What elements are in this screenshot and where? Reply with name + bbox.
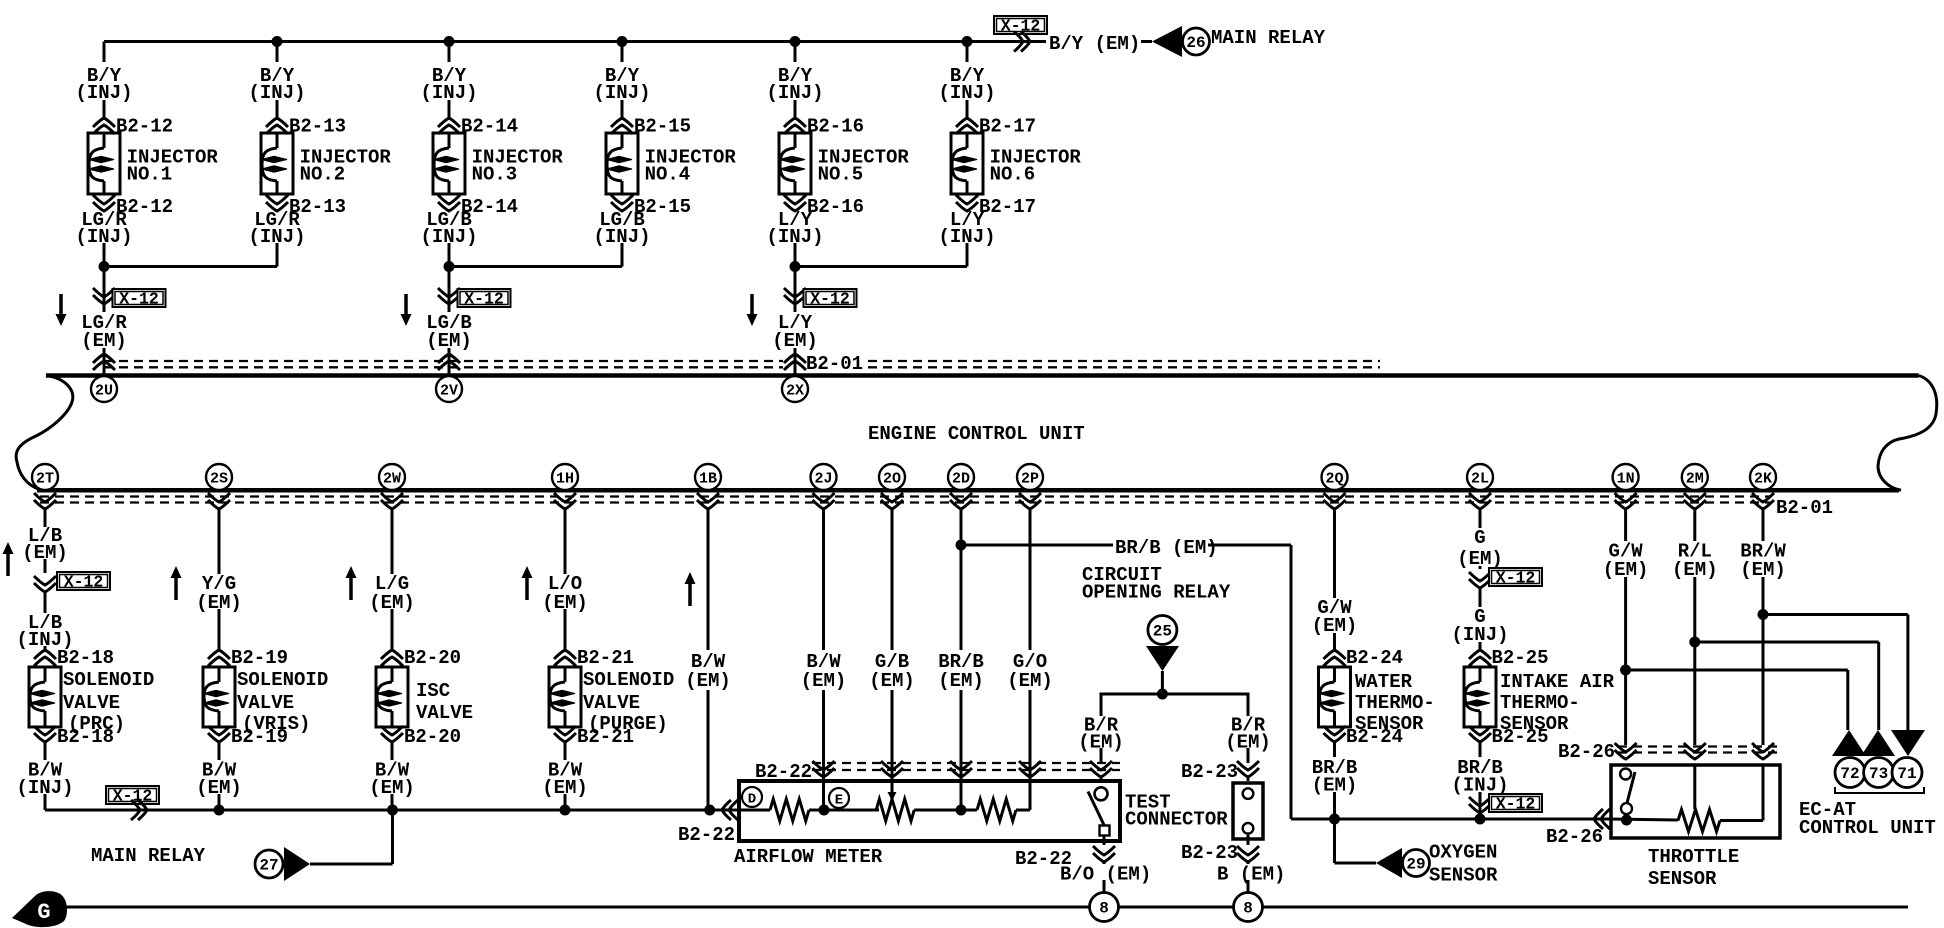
- svg-text:BR/B (EM): BR/B (EM): [1115, 537, 1218, 559]
- svg-text:B2-12: B2-12: [116, 116, 173, 138]
- connector B2-01 chevron below pin 2J: [813, 500, 835, 509]
- ECU torn edge right: [1878, 376, 1937, 491]
- svg-text:VALVE: VALVE: [416, 702, 473, 724]
- svg-text:B2-16: B2-16: [807, 116, 864, 138]
- junction BR/B at water sensor: [1329, 814, 1340, 825]
- svg-text:OPENING RELAY: OPENING RELAY: [1082, 582, 1231, 604]
- svg-text:THERMO-: THERMO-: [1355, 692, 1435, 714]
- connector B2-22 chevron below airflow meter: [1093, 853, 1115, 862]
- connector B2-23 chevron below test connector: [1237, 853, 1259, 862]
- injector NO.2 (coil in box): [261, 133, 293, 194]
- ECU torn edge left: [16, 376, 73, 490]
- injector NO.4 (coil in box): [606, 133, 638, 194]
- connector B2-18 (bottom of solenoid valve PRC): [34, 733, 56, 742]
- connector B2-26 chevron at x=1625.6: [1615, 750, 1637, 759]
- wire 2J inside airflow meter: [822, 781, 825, 810]
- svg-text:(EM): (EM): [772, 330, 818, 352]
- connector B2-25 (top of intake air thermo-sensor): [1469, 650, 1491, 659]
- ECU pin 2L: [1467, 464, 1493, 490]
- svg-text:B2-15: B2-15: [634, 116, 691, 138]
- resistor (airflow meter 2): [876, 799, 914, 821]
- connector B2-15 (top of injector 4): [611, 118, 633, 127]
- connector B2-22 chevron at x=823.5: [813, 768, 835, 777]
- svg-text:B2-20: B2-20: [404, 726, 461, 748]
- connector B2-18 (top of solenoid valve PRC): [34, 650, 56, 659]
- svg-text:B2-24: B2-24: [1346, 647, 1403, 669]
- connector B2-01 chevron below pin 1H: [554, 500, 576, 509]
- svg-text:B/O (EM): B/O (EM): [1060, 864, 1151, 886]
- connector B2-22 chevron at x=892: [881, 768, 903, 777]
- wire L/O (EM) from ECU pin x=565: [564, 509, 567, 574]
- svg-text:G: G: [37, 900, 50, 925]
- svg-text:2X: 2X: [786, 383, 804, 400]
- wire inside throttle sensor: [1625, 814, 1628, 821]
- wiper wire 2M into throttle sensor: [1693, 765, 1696, 809]
- test connector pins: [1243, 788, 1254, 799]
- arrow (direction) near 2U: [59, 294, 63, 315]
- ground symbol G: [12, 891, 67, 927]
- injector NO.6 (coil in box): [951, 133, 983, 194]
- svg-text:ISC: ISC: [416, 680, 450, 702]
- wire L/B (EM) from pin 2T: [44, 509, 47, 527]
- connector B2-01 chevron below pin 2P: [1019, 500, 1041, 509]
- svg-text:B (EM): B (EM): [1217, 864, 1285, 886]
- ECU pin 2M: [1682, 464, 1708, 490]
- svg-text:B2-01: B2-01: [806, 353, 863, 375]
- wire below injector 5: [794, 243, 797, 267]
- connector B2-24 (bottom of water thermo-sensor): [1324, 733, 1346, 742]
- ground bus: [56, 906, 1908, 909]
- svg-text:(INJ): (INJ): [75, 82, 132, 104]
- svg-text:B2-18: B2-18: [57, 726, 114, 748]
- ECU pin 2T: [32, 464, 58, 490]
- svg-text:2Q: 2Q: [1325, 471, 1343, 488]
- svg-text:D: D: [748, 792, 756, 808]
- injector NO.5 (coil in box): [779, 133, 811, 194]
- wire BR/B (EM) horizontal run: [1291, 818, 1609, 821]
- svg-text:THROTTLE: THROTTLE: [1648, 846, 1739, 868]
- wire below injector 3: [448, 243, 451, 267]
- connector B2-13 (top of injector 2): [266, 118, 288, 127]
- svg-text:B2-17: B2-17: [979, 116, 1036, 138]
- node 8 (right, B ground): [1234, 893, 1263, 922]
- connector X-12 (B/W): [106, 786, 159, 804]
- connector X-12 (L/B): [34, 583, 56, 592]
- svg-text:(EM): (EM): [1740, 559, 1786, 581]
- wire 2M to EC-AT 73: [1695, 641, 1879, 644]
- connector B2-01 chevron below pin 2L: [1469, 500, 1491, 509]
- svg-text:(INJ): (INJ): [420, 82, 477, 104]
- junction on B/Y bus at x=277: [272, 36, 283, 47]
- wire below injector 2: [276, 243, 279, 267]
- svg-text:(EM): (EM): [81, 330, 127, 352]
- svg-text:ENGINE CONTROL UNIT: ENGINE CONTROL UNIT: [868, 423, 1085, 445]
- arrow 26 to MAIN RELAY: [1152, 26, 1182, 57]
- bracket under EC-AT arrows: [1835, 787, 1924, 793]
- ECU pin 2W: [379, 464, 405, 490]
- junction 2M branch to EC-AT: [1689, 637, 1700, 648]
- connector B2-01 chevron below pin 2Q: [1324, 500, 1346, 509]
- arrow (direction) near x=219: [174, 577, 178, 600]
- arrow (direction) near 2V: [404, 294, 408, 315]
- svg-text:B2-25: B2-25: [1492, 726, 1549, 748]
- connector X-12 (L/Y): [784, 295, 806, 304]
- connector B2-22 chevron at x=961: [950, 768, 972, 777]
- connector B2-19 (top): [208, 650, 230, 659]
- svg-text:B2-16: B2-16: [807, 196, 864, 218]
- svg-text:1B: 1B: [699, 471, 717, 488]
- svg-text:(EM): (EM): [801, 670, 847, 692]
- wire BR/B (EM) from ECU pin x=961: [960, 509, 963, 650]
- wire B/W (INJ) down to main-relay feed: [44, 742, 47, 760]
- connector X-12 (LG/R): [93, 295, 115, 304]
- arrow 25 from circuit opening relay: [1148, 616, 1177, 645]
- svg-text:2L: 2L: [1471, 471, 1489, 488]
- wire from test connector down: [1247, 834, 1250, 845]
- svg-text:2K: 2K: [1754, 471, 1772, 488]
- svg-text:2V: 2V: [440, 383, 458, 400]
- svg-text:SOLENOID: SOLENOID: [583, 669, 674, 691]
- svg-text:AIRFLOW METER: AIRFLOW METER: [734, 846, 883, 868]
- wire R/L (EM) from ECU pin x=1694.8: [1693, 509, 1696, 541]
- arrow 71 to EC-AT control unit: [1891, 730, 1925, 756]
- svg-text:B2-19: B2-19: [231, 726, 288, 748]
- svg-text:8: 8: [1099, 900, 1109, 918]
- wire joining injector pair at x=449: [449, 265, 622, 268]
- svg-text:MAIN RELAY: MAIN RELAY: [1211, 27, 1326, 49]
- svg-text:72: 72: [1840, 765, 1859, 783]
- ECU pin 2S: [206, 464, 232, 490]
- svg-text:X-12: X-12: [119, 290, 159, 309]
- connector B2-16 (top of injector 5): [784, 118, 806, 127]
- svg-text:NO.3: NO.3: [472, 164, 518, 186]
- svg-text:1N: 1N: [1617, 471, 1635, 488]
- connector B2-14 (top of injector 3): [438, 118, 460, 127]
- solenoid valve (PRC): [29, 667, 61, 727]
- svg-text:VALVE: VALVE: [237, 692, 294, 714]
- ECU pin 2D: [948, 464, 974, 490]
- svg-text:(EM): (EM): [1672, 559, 1718, 581]
- connector B2-20 (bottom): [381, 733, 403, 742]
- svg-text:(INJ): (INJ): [766, 82, 823, 104]
- injector NO.2 column wire B/Y (INJ): [276, 42, 279, 63]
- connector B2-01 chevron below pin 1B: [697, 500, 719, 509]
- wire below injector 4: [621, 243, 624, 267]
- arrow (direction) near 2X: [750, 294, 754, 315]
- svg-text:B2-23: B2-23: [1181, 842, 1238, 864]
- node E (airflow meter): [829, 788, 849, 808]
- wire LG/R (EM) down to ECU: [103, 267, 106, 313]
- svg-text:(EM): (EM): [869, 670, 915, 692]
- svg-text:CONTROL UNIT: CONTROL UNIT: [1799, 817, 1936, 839]
- wire below injector 1: [103, 243, 106, 267]
- svg-text:B2-21: B2-21: [577, 647, 634, 669]
- injector NO.6 column wire B/Y (INJ): [966, 42, 969, 63]
- svg-text:1H: 1H: [556, 471, 574, 488]
- svg-text:26: 26: [1186, 34, 1205, 52]
- wire B/W (EM) from pin 1B: [707, 509, 710, 650]
- connector B2-16 (bottom of injector 5): [784, 202, 806, 211]
- svg-text:2D: 2D: [952, 471, 970, 488]
- wire G/W (EM) from pin 2Q: [1333, 509, 1336, 598]
- svg-text:2U: 2U: [95, 383, 113, 400]
- arrow 72 to EC-AT control unit: [1832, 730, 1866, 756]
- svg-text:INTAKE AIR: INTAKE AIR: [1500, 671, 1615, 693]
- connector B2-26 chevron at x=1694.8: [1684, 750, 1706, 759]
- svg-text:B2-26: B2-26: [1546, 826, 1603, 848]
- svg-text:SENSOR: SENSOR: [1648, 868, 1717, 890]
- connector X-12 (BR/B): [1469, 804, 1491, 813]
- svg-text:X-12: X-12: [1496, 795, 1536, 814]
- svg-text:(EM): (EM): [542, 592, 588, 614]
- wire BR/B (EM) down: [1333, 742, 1336, 757]
- svg-text:NO.4: NO.4: [645, 164, 691, 186]
- connector B2-26 chevron at throttle sensor input: [1594, 809, 1603, 829]
- connector B2-12 (top of injector 1): [93, 118, 115, 127]
- svg-text:(EM): (EM): [426, 330, 472, 352]
- junction BR/B (EM) branch at 2D: [956, 540, 967, 551]
- wire G/O (EM) from ECU pin x=1030: [1029, 509, 1032, 650]
- connector B2-01 chevron below pin 2S: [208, 500, 230, 509]
- svg-text:X-12: X-12: [464, 290, 504, 309]
- node D (airflow meter): [742, 787, 762, 807]
- engine control unit top edge: [46, 373, 1919, 378]
- wire B/R (EM) split to airflow switch and test connector: [1101, 694, 1248, 716]
- harness B2-01 dashed line (above ECU top edge): [104, 360, 783, 362]
- resistor (throttle sensor): [1678, 810, 1720, 832]
- svg-text:(EM): (EM): [1007, 670, 1053, 692]
- arrow (direction) near x=565: [525, 577, 529, 600]
- svg-text:X-12: X-12: [1496, 569, 1536, 588]
- connector B2-22 chevron at airflow meter input: [722, 800, 731, 820]
- svg-text:(EM): (EM): [369, 592, 415, 614]
- connector X-12 (LG/B): [438, 295, 460, 304]
- valve ISC VALVE at x=392: [376, 667, 408, 727]
- connector B2-01 chevron below pin 2O: [881, 500, 903, 509]
- svg-text:B2-13: B2-13: [289, 116, 346, 138]
- wire LG/B (EM) down to ECU: [448, 267, 451, 313]
- svg-text:B/Y (EM): B/Y (EM): [1049, 33, 1140, 55]
- junction BR/B at intake sensor: [1475, 814, 1486, 825]
- arrow (direction) near 1B: [688, 583, 692, 606]
- resistor (airflow meter 1): [770, 799, 809, 821]
- wire B/W (EM) down at x=565: [564, 742, 567, 760]
- connector B2-22 chevron at x=1030: [1019, 768, 1041, 777]
- node 8 (left, B/O ground): [1090, 893, 1119, 922]
- svg-text:(EM): (EM): [22, 542, 68, 564]
- svg-text:X-12: X-12: [64, 573, 104, 592]
- wire BR/B (INJ) down: [1479, 742, 1482, 757]
- connector X-12 (G): [1469, 579, 1491, 588]
- svg-text:B2-26: B2-26: [1558, 741, 1615, 763]
- throttle sensor switch: [1620, 769, 1631, 780]
- svg-text:8: 8: [1243, 900, 1253, 918]
- svg-text:SOLENOID: SOLENOID: [237, 669, 328, 691]
- wire L/G (EM) from ECU pin x=392: [391, 509, 394, 574]
- svg-text:(INJ): (INJ): [248, 82, 305, 104]
- svg-text:(EM): (EM): [1312, 615, 1358, 637]
- resistor (airflow meter 3): [977, 799, 1016, 821]
- connector B2-01 chevron below pin 2M: [1684, 500, 1706, 509]
- wire from arrow 27 to B/W feed: [310, 863, 393, 866]
- injector NO.1 (coil in box): [88, 133, 120, 194]
- svg-text:29: 29: [1406, 856, 1425, 874]
- injector NO.1 column wire B/Y (INJ): [103, 42, 106, 63]
- connector B2-01 chevron at LG/B (EM): [438, 354, 460, 363]
- ECU pin 2V: [436, 376, 462, 402]
- valve SOLENOID VALVE at x=219: [203, 667, 235, 727]
- svg-text:THERMO-: THERMO-: [1500, 692, 1580, 714]
- svg-text:2W: 2W: [383, 471, 401, 488]
- junction 2K branch to EC-AT: [1758, 609, 1769, 620]
- junction on B/Y bus at x=449: [444, 36, 455, 47]
- switch (airflow meter): [1095, 787, 1108, 800]
- test connector box: [1233, 783, 1263, 839]
- harness B2-01 dashed line (below ECU bottom edge): [40, 495, 1770, 497]
- ECU pin 2J: [811, 464, 837, 490]
- airflow meter box: [739, 781, 1120, 841]
- svg-text:X-12: X-12: [810, 290, 850, 309]
- ECU pin 2P: [1017, 464, 1043, 490]
- connector B2-23 chevron at B/R (EM) right: [1237, 768, 1259, 777]
- wire 2D inside airflow meter: [960, 781, 963, 810]
- svg-text:B2-24: B2-24: [1346, 726, 1403, 748]
- wire 1N to EC-AT 72: [1626, 669, 1848, 672]
- svg-text:B2-20: B2-20: [404, 647, 461, 669]
- connector B2-01 chevron at L/Y (EM): [784, 354, 806, 363]
- wire from arrow 25: [1161, 671, 1164, 694]
- svg-text:B2-17: B2-17: [979, 196, 1036, 218]
- ECU pin 2U: [91, 376, 117, 402]
- connector B2-14 (bottom of injector 3): [438, 202, 460, 211]
- svg-text:VALVE: VALVE: [583, 692, 640, 714]
- svg-text:25: 25: [1153, 623, 1172, 641]
- svg-text:71: 71: [1897, 765, 1916, 783]
- svg-text:(INJ): (INJ): [1451, 624, 1508, 646]
- svg-text:CONNECTOR: CONNECTOR: [1125, 809, 1228, 831]
- svg-text:(INJ): (INJ): [938, 82, 995, 104]
- svg-text:B2-21: B2-21: [577, 726, 634, 748]
- svg-text:E: E: [835, 793, 843, 809]
- ECU pin 1B: [695, 464, 721, 490]
- junction B/W at 2S: [214, 805, 225, 816]
- wire G (EM) from pin 2L: [1479, 509, 1482, 528]
- wire BR/W (EM) from ECU pin x=1763: [1762, 509, 1765, 541]
- injector NO.3 (coil in box): [433, 133, 465, 194]
- svg-text:2S: 2S: [210, 471, 228, 488]
- svg-text:(EM): (EM): [938, 670, 984, 692]
- wire to oxygen sensor arrow: [1333, 819, 1336, 863]
- svg-text:B2-25: B2-25: [1492, 647, 1549, 669]
- wire BR/B (EM) to circuit opening relay area: [961, 544, 1113, 547]
- connector B2-17 (top of injector 6): [956, 118, 978, 127]
- junction B/W at 1H: [560, 805, 571, 816]
- junction inside throttle sensor: [1621, 815, 1632, 826]
- svg-text:B2-14: B2-14: [461, 116, 518, 138]
- svg-text:MAIN RELAY: MAIN RELAY: [91, 845, 206, 867]
- svg-text:B2-18: B2-18: [57, 647, 114, 669]
- arrow (direction) near 2T: [6, 553, 10, 576]
- wire G/B (EM) from ECU pin x=892: [891, 509, 894, 650]
- svg-text:(INJ): (INJ): [593, 82, 650, 104]
- svg-text:B2-23: B2-23: [1181, 761, 1238, 783]
- injector NO.4 column wire B/Y (INJ): [621, 42, 624, 63]
- connector B2-24 (top of water thermo-sensor): [1324, 650, 1346, 659]
- svg-text:2J: 2J: [814, 471, 832, 488]
- valve SOLENOID VALVE at x=565: [549, 667, 581, 727]
- connector B2-01 chevron below pin 1N: [1615, 500, 1637, 509]
- connector B2-25 (bottom of intake air thermo-sensor): [1469, 733, 1491, 742]
- harness B2-22 dashed line above airflow meter: [812, 762, 1120, 764]
- wire G/W (EM) from ECU pin x=1625.6: [1624, 509, 1627, 541]
- ECU pin 2O: [879, 464, 905, 490]
- ECU pin 2Q: [1322, 464, 1348, 490]
- junction at 2J inside airflow meter: [819, 805, 830, 816]
- harness B2-26 dashed line: [1618, 745, 1779, 747]
- svg-text:OXYGEN: OXYGEN: [1429, 842, 1497, 864]
- svg-text:2M: 2M: [1686, 471, 1704, 488]
- svg-text:(EM): (EM): [685, 670, 731, 692]
- intake air thermo-sensor: [1464, 667, 1496, 727]
- junction at relay feed split: [1157, 689, 1168, 700]
- svg-text:B2-01: B2-01: [1776, 497, 1833, 519]
- connector B2-21 (top): [554, 650, 576, 659]
- connector B2-26 chevron at x=1763: [1752, 750, 1774, 759]
- connector X-12 (top, B/Y): [994, 16, 1047, 34]
- connector B2-17 (bottom of injector 6): [956, 202, 978, 211]
- arrow 27 from main relay: [255, 850, 283, 878]
- junction on B/Y bus at x=967: [962, 36, 973, 47]
- water thermo-sensor: [1319, 667, 1351, 727]
- junction on B/Y bus at x=622: [617, 36, 628, 47]
- wire inside airflow meter: [739, 809, 770, 812]
- connector B2-13 (bottom of injector 2): [266, 202, 288, 211]
- connector B2-19 (bottom): [208, 733, 230, 742]
- svg-text:27: 27: [259, 857, 278, 875]
- svg-text:(EM): (EM): [1457, 548, 1503, 570]
- wire below injector 6: [966, 243, 969, 267]
- wire B/Y bus (top feed from main relay): [104, 40, 1046, 43]
- wire B/W main relay feed (horizontal): [45, 809, 739, 812]
- svg-text:2P: 2P: [1021, 471, 1039, 488]
- wiper wire 2O inside airflow meter: [891, 781, 894, 794]
- throttle sensor box: [1611, 765, 1780, 838]
- svg-text:VALVE: VALVE: [63, 692, 120, 714]
- connector B2-12 (bottom of injector 1): [93, 202, 115, 211]
- svg-text:2T: 2T: [36, 471, 54, 488]
- connector B2-01 chevron below pin 2D: [950, 500, 972, 509]
- wire 2K to EC-AT 71: [1763, 613, 1908, 616]
- svg-text:WATER: WATER: [1355, 671, 1413, 693]
- arrow (direction) near x=392: [349, 577, 353, 600]
- ECU pin 2X: [782, 376, 808, 402]
- wire B/W (EM) down at x=392: [391, 742, 394, 760]
- injector NO.3 column wire B/Y (INJ): [448, 42, 451, 63]
- junction on B/Y bus at x=795: [790, 36, 801, 47]
- arrow 29 to oxygen sensor: [1376, 848, 1402, 878]
- svg-text:NO.1: NO.1: [127, 164, 173, 186]
- connector B2-01 chevron below pin 2K: [1752, 500, 1774, 509]
- wire joining injector pair at x=795: [795, 265, 967, 268]
- wire from airflow switch down: [1103, 836, 1106, 846]
- svg-text:(EM): (EM): [196, 592, 242, 614]
- svg-text:NO.2: NO.2: [300, 164, 346, 186]
- junction B/W at 1B: [704, 805, 715, 816]
- ECU pin 1N: [1613, 464, 1639, 490]
- svg-text:B2-19: B2-19: [231, 647, 288, 669]
- engine control unit bottom edge: [37, 488, 1899, 493]
- svg-text:SENSOR: SENSOR: [1429, 865, 1498, 887]
